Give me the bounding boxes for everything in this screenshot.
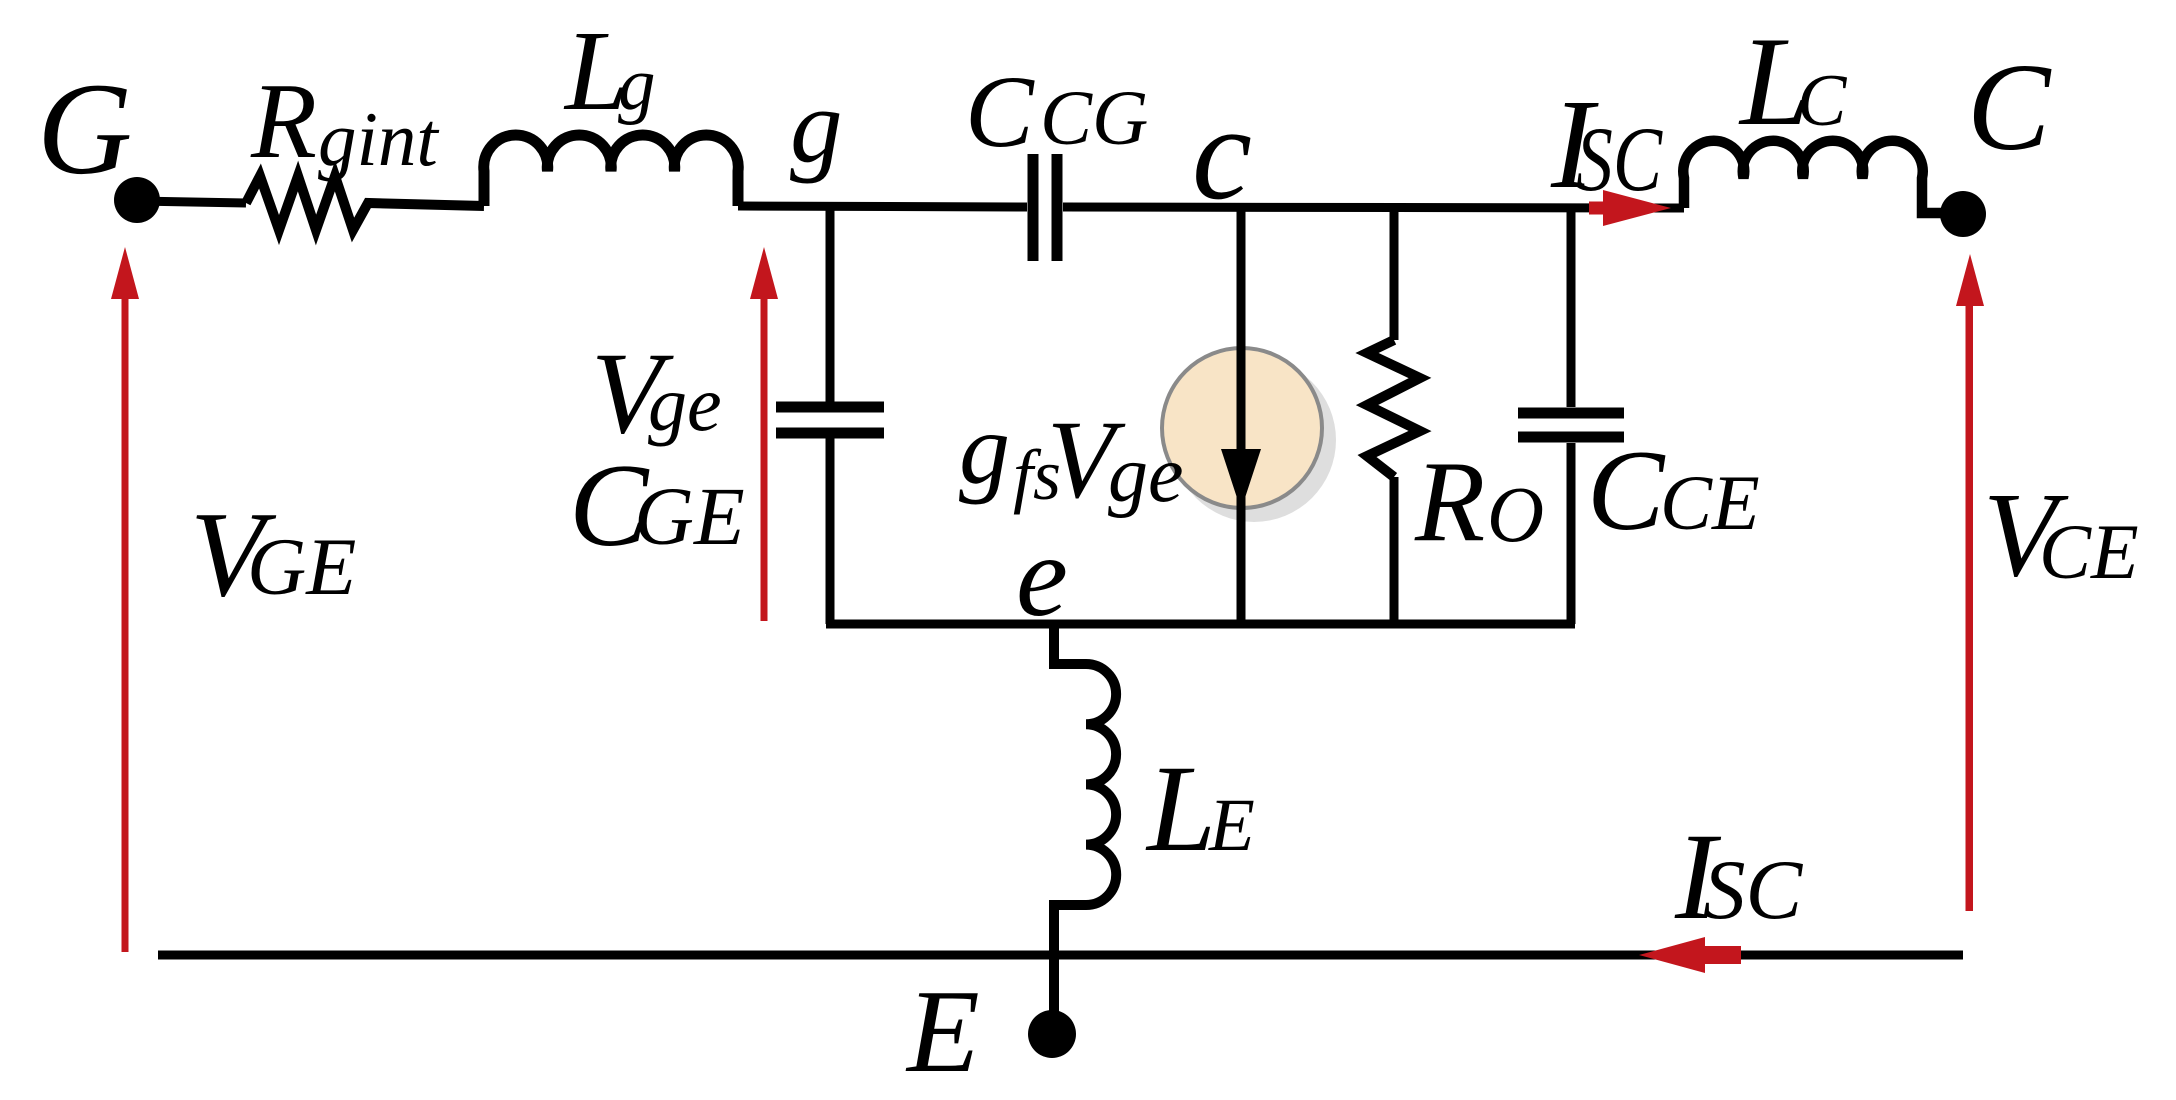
wire e rail xyxy=(826,620,1575,629)
current source U1 g_fs*V_ge xyxy=(1162,348,1322,508)
capacitor CCE bottom plate xyxy=(1518,432,1624,443)
svg-text:gint: gint xyxy=(318,96,439,182)
svg-text:O: O xyxy=(1487,472,1544,559)
svg-text:ge: ge xyxy=(648,360,722,447)
inductor LE xyxy=(1054,624,1116,1030)
terminal C xyxy=(1940,191,1986,237)
arrow ISC bottom xyxy=(1639,937,1741,973)
svg-text:SC: SC xyxy=(1576,108,1663,210)
svg-text:CE: CE xyxy=(1660,459,1760,546)
svg-text:ge: ge xyxy=(1108,431,1184,519)
svg-text:g: g xyxy=(618,43,656,126)
wire RO branch upper xyxy=(1390,207,1399,340)
arrow VGE xyxy=(122,297,129,952)
svg-text:G: G xyxy=(37,55,132,202)
terminal E xyxy=(1028,1010,1076,1058)
arrow ISC top xyxy=(1589,190,1671,226)
capacitor CCG right plate xyxy=(1052,154,1063,261)
svg-text:E: E xyxy=(1208,784,1255,867)
svg-text:GE: GE xyxy=(634,470,745,562)
capacitor CGE top plate xyxy=(776,402,884,413)
svg-text:C: C xyxy=(1967,39,2052,177)
wire bottom rail xyxy=(158,951,1963,960)
terminal G xyxy=(114,177,160,223)
wire g branch upper xyxy=(826,207,835,402)
capacitor CGE bottom plate xyxy=(776,428,884,439)
wire RO branch lower xyxy=(1390,477,1399,624)
svg-text:L: L xyxy=(1145,740,1216,877)
wire G lead xyxy=(137,201,246,203)
svg-text:C: C xyxy=(1797,60,1848,142)
resistor Rgint xyxy=(246,176,484,230)
svg-text:g: g xyxy=(959,393,1010,506)
svg-text:C: C xyxy=(1587,427,1666,555)
svg-text:SC: SC xyxy=(1703,843,1804,937)
svg-text:CG: CG xyxy=(1040,74,1148,161)
inductor Lg xyxy=(484,135,739,206)
capacitor CCG left plate xyxy=(1028,154,1039,261)
svg-text:CE: CE xyxy=(2039,508,2139,595)
capacitor CCE top plate xyxy=(1518,408,1624,419)
wire current source branch xyxy=(1237,207,1246,624)
current source shadow xyxy=(1172,358,1336,522)
svg-text:C: C xyxy=(965,55,1035,169)
wire c rail to Lc xyxy=(1063,207,1684,208)
wire g to CCG left plate xyxy=(738,206,1027,207)
arrow Vge xyxy=(761,297,768,621)
resistor RO xyxy=(1367,340,1420,477)
svg-text:R: R xyxy=(1414,438,1485,565)
svg-text:GE: GE xyxy=(247,521,356,612)
wire g branch lower xyxy=(826,438,835,624)
wire right branch lower xyxy=(1567,443,1576,624)
svg-text:E: E xyxy=(905,965,980,1097)
arrowhead of current source xyxy=(1221,449,1261,510)
svg-text:R: R xyxy=(250,62,317,181)
wire right branch upper xyxy=(1567,207,1576,407)
svg-text:e: e xyxy=(1016,512,1068,641)
arrow VCE xyxy=(1966,304,1974,911)
svg-text:g: g xyxy=(790,67,843,184)
svg-text:c: c xyxy=(1192,79,1252,228)
inductor Lc xyxy=(1683,141,1941,213)
